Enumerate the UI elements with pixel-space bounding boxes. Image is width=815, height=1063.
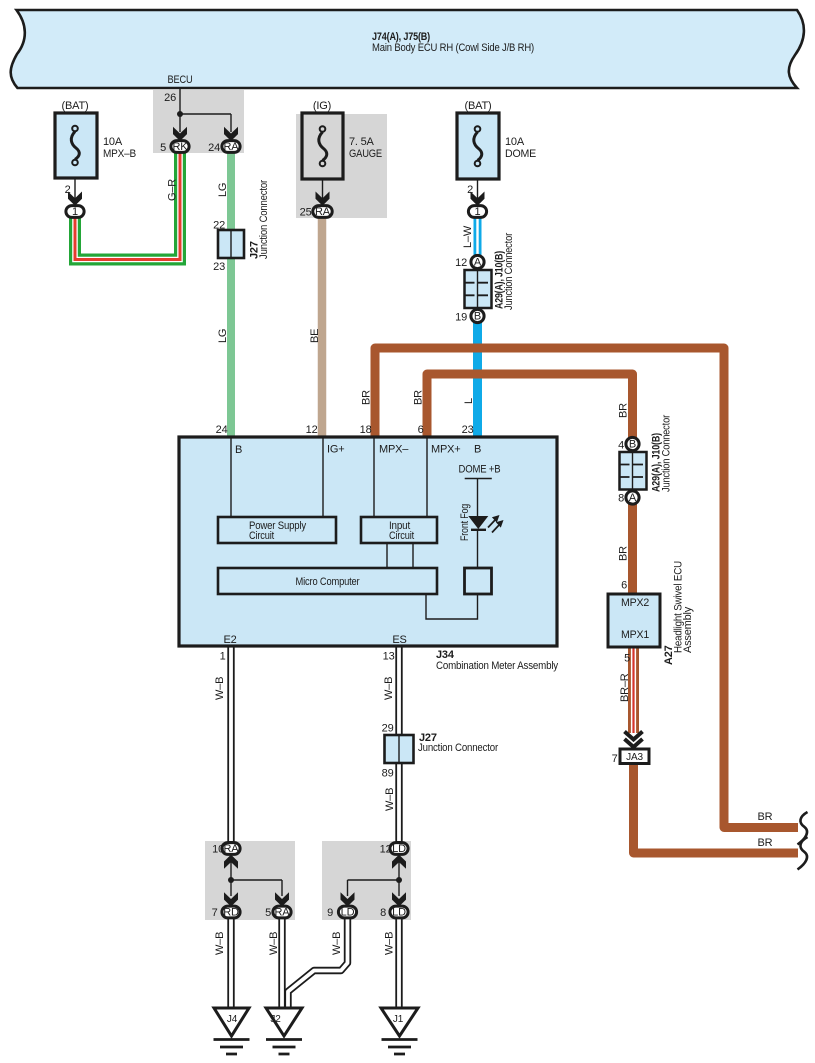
svg-text:6: 6 (621, 580, 627, 592)
svg-text:LG: LG (217, 329, 229, 343)
svg-text:A: A (629, 492, 637, 504)
svg-text:B: B (474, 311, 481, 323)
svg-text:5: 5 (265, 907, 271, 919)
svg-text:2: 2 (65, 184, 71, 196)
svg-text:19: 19 (455, 312, 467, 324)
svg-text:23: 23 (462, 424, 474, 436)
svg-text:MPX2: MPX2 (621, 597, 649, 609)
svg-text:B: B (235, 444, 242, 456)
svg-text:Junction Connector: Junction Connector (503, 233, 515, 310)
svg-text:RD: RD (223, 907, 239, 919)
svg-text:7. 5A: 7. 5A (349, 136, 375, 148)
svg-text:1: 1 (475, 206, 481, 218)
svg-text:Circuit: Circuit (249, 530, 274, 542)
svg-text:ES: ES (392, 634, 406, 646)
svg-text:5: 5 (624, 653, 630, 665)
svg-text:BR: BR (618, 403, 630, 418)
svg-text:LD: LD (341, 907, 355, 919)
svg-text:L–W: L–W (462, 225, 474, 248)
svg-text:Front Fog: Front Fog (459, 504, 471, 541)
svg-text:1: 1 (72, 206, 78, 218)
svg-text:Main Body ECU RH (Cowl Side J/: Main Body ECU RH (Cowl Side J/B RH) (372, 42, 534, 54)
svg-text:BECU: BECU (168, 74, 193, 86)
svg-text:22: 22 (213, 220, 225, 232)
svg-text:G–R: G–R (167, 179, 179, 201)
svg-text:W–B: W–B (214, 677, 226, 700)
svg-text:BR–R: BR–R (619, 673, 631, 702)
svg-text:BR: BR (413, 390, 425, 405)
svg-text:W–B: W–B (214, 932, 226, 955)
svg-text:Micro Computer: Micro Computer (296, 576, 360, 588)
svg-text:W–B: W–B (331, 932, 343, 955)
svg-text:8: 8 (618, 493, 624, 505)
svg-text:IG+: IG+ (327, 444, 344, 456)
svg-text:24: 24 (208, 142, 220, 154)
svg-text:12: 12 (306, 424, 318, 436)
svg-text:1: 1 (220, 651, 226, 663)
svg-text:BR: BR (361, 390, 373, 405)
svg-text:Junction Connector: Junction Connector (661, 415, 673, 492)
svg-text:A: A (474, 257, 482, 269)
svg-text:W–B: W–B (383, 677, 395, 700)
svg-text:12: 12 (380, 844, 392, 856)
svg-text:J4: J4 (227, 1014, 238, 1025)
svg-text:GAUGE: GAUGE (349, 148, 382, 160)
svg-text:(BAT): (BAT) (465, 100, 492, 112)
svg-text:MPX1: MPX1 (621, 629, 649, 641)
svg-text:Circuit: Circuit (389, 530, 414, 542)
svg-text:MPX+: MPX+ (431, 444, 460, 456)
svg-text:RK: RK (173, 141, 189, 153)
svg-text:23: 23 (213, 261, 225, 273)
svg-text:RA: RA (224, 141, 240, 153)
svg-text:W–B: W–B (268, 932, 280, 955)
svg-text:(BAT): (BAT) (62, 100, 89, 112)
svg-text:LG: LG (217, 183, 229, 197)
svg-text:J2: J2 (270, 1014, 281, 1025)
svg-text:6: 6 (418, 424, 424, 436)
svg-text:26: 26 (164, 92, 176, 104)
svg-text:Junction Connector: Junction Connector (418, 742, 498, 754)
svg-text:LD: LD (392, 843, 406, 855)
svg-text:5: 5 (160, 142, 166, 154)
svg-text:10: 10 (212, 844, 224, 856)
svg-text:BE: BE (309, 329, 321, 343)
svg-text:29: 29 (382, 723, 394, 735)
svg-text:12: 12 (455, 257, 467, 269)
svg-text:BR: BR (758, 811, 773, 823)
svg-text:DOME: DOME (505, 148, 536, 160)
svg-text:L: L (463, 398, 475, 404)
svg-text:9: 9 (327, 907, 333, 919)
svg-text:E2: E2 (223, 634, 236, 646)
svg-text:10A: 10A (505, 136, 525, 148)
svg-text:2: 2 (467, 184, 473, 196)
svg-text:8: 8 (380, 907, 386, 919)
svg-text:LD: LD (392, 907, 406, 919)
svg-text:Combination Meter Assembly: Combination Meter Assembly (436, 660, 559, 672)
svg-text:JA3: JA3 (626, 752, 643, 763)
svg-text:W–B: W–B (384, 932, 396, 955)
svg-text:89: 89 (382, 768, 394, 780)
svg-text:10A: 10A (103, 136, 123, 148)
svg-text:B: B (474, 444, 481, 456)
svg-text:RA: RA (315, 206, 331, 218)
svg-text:W–B: W–B (384, 788, 396, 811)
svg-text:BR: BR (758, 837, 773, 849)
svg-text:4: 4 (618, 440, 624, 452)
svg-text:Junction Connector: Junction Connector (258, 180, 270, 259)
svg-text:RA: RA (275, 907, 291, 919)
svg-text:Assembly: Assembly (682, 606, 694, 653)
svg-text:25: 25 (300, 207, 312, 219)
svg-text:(IG): (IG) (313, 100, 331, 112)
svg-text:13: 13 (383, 651, 395, 663)
svg-text:BR: BR (618, 546, 630, 561)
svg-text:7: 7 (612, 753, 618, 765)
svg-text:18: 18 (360, 424, 372, 436)
svg-text:MPX–: MPX– (379, 444, 409, 456)
svg-text:7: 7 (212, 907, 218, 919)
svg-text:J1: J1 (393, 1014, 404, 1025)
svg-text:24: 24 (216, 424, 228, 436)
svg-text:MPX–B: MPX–B (103, 148, 136, 160)
svg-text:B: B (629, 439, 636, 451)
svg-text:DOME +B: DOME +B (459, 464, 501, 476)
svg-text:RA: RA (224, 843, 240, 855)
